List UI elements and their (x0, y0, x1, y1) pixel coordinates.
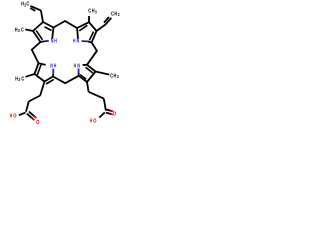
SW pyrrole ring (35, 63, 54, 84)
bond C(beta top)-C(beta left) (33, 22, 43, 31)
double bond C(beta bottom)=C(alpha BR) (45, 77, 54, 82)
top meso bridge CH (54, 21, 78, 28)
SW carboxyl C-OH bond (19, 113, 26, 116)
vinyl NW double bond CH=CH2 (30, 6, 41, 10)
bond N4 stub (blue) (52, 69, 54, 74)
bond N1 stub (blue) (45, 40, 49, 42)
bond C(alpha BR)-N2 (88, 41, 92, 42)
SE propionic acid chain: ring-CH2 (87, 82, 89, 92)
bond N1-C(alpha top) (52, 28, 53, 39)
svg-text:N: N (51, 39, 54, 45)
SW chain CH2-CH2 (29, 96, 41, 102)
bond N2-C(alpha top-left) (76, 28, 79, 38)
NW pyrrole ring (33, 22, 54, 42)
SE carboxyl C-OH bond (99, 112, 105, 117)
svg-text:H: H (54, 63, 57, 69)
methyl bond NE CH3 (88, 16, 90, 22)
svg-text:C: C (21, 27, 24, 33)
double bond C(alpha L)=C(beta left) (35, 63, 39, 74)
double bond C(alpha top)=C(beta top) (43, 22, 54, 28)
svg-text:3: 3 (18, 77, 20, 82)
svg-text:3: 3 (18, 28, 20, 33)
SW chain CH2-COOH (26, 102, 29, 112)
bond N3-C(alpha right) (83, 64, 87, 66)
SE chain CH2-COOH (104, 99, 106, 111)
bond C(beta top)-C(beta right) (89, 22, 97, 31)
svg-text:N: N (77, 63, 80, 69)
east meso bridge CH (87, 43, 97, 65)
SW carboxyl C=O double bond (27, 114, 34, 120)
SW C=O red half (31, 118, 34, 121)
svg-text:H: H (73, 39, 76, 45)
bond C(beta right)-C(beta bottom) (87, 72, 96, 83)
svg-text:O: O (93, 119, 97, 125)
NE pyrrole ring (77, 22, 97, 42)
svg-text:H: H (90, 119, 93, 125)
red halves of C=O double bonds (31, 111, 113, 121)
svg-text:O: O (36, 120, 40, 126)
bond C(beta left)-C(beta bottom) (35, 74, 45, 82)
double bond C(alpha TL)=C(beta top) (77, 22, 89, 28)
SE chain CH2-CH2 (89, 92, 104, 99)
svg-text:C: C (21, 76, 24, 82)
atom labels (10, 2, 120, 127)
svg-text:H: H (54, 39, 57, 45)
SE C=O red half (110, 110, 113, 113)
bond C(alpha bottom)-N1 (41, 40, 45, 43)
bond C(alpha BR)-N4 (52, 74, 54, 77)
south meso bridge CH (53, 76, 79, 83)
svg-text:H: H (10, 113, 13, 119)
methyl bond SE CH3 (96, 72, 110, 75)
bond C(alpha BL)-N3 (78, 73, 80, 76)
svg-text:2: 2 (118, 12, 120, 17)
SW propionic acid chain: ring-CH2 (40, 82, 44, 96)
methyl bond SW H3C- (26, 74, 35, 77)
svg-text:O: O (113, 112, 117, 118)
double bond C(alpha R)=C(beta right) (87, 65, 96, 72)
svg-text:N: N (77, 39, 80, 45)
bond N3 stub (blue) (78, 69, 80, 73)
svg-text:C: C (26, 2, 29, 8)
bond N4-C(alpha left) (39, 63, 46, 65)
methyl bond NW H3C- (25, 29, 33, 31)
SE pyrrole ring (79, 65, 96, 82)
vinyl on NW ring: bond ring-CH (41, 10, 43, 22)
SE carboxyl C=O double bond (107, 110, 113, 112)
double bond C(beta right)=C(alpha BR) (92, 31, 97, 43)
svg-text:3: 3 (95, 9, 97, 14)
double bond C(beta left)=C(alpha bottom) (33, 31, 41, 42)
svg-text:O: O (13, 113, 17, 119)
svg-text:N: N (50, 63, 53, 69)
vinyl on NE ring: bond ring-CH (97, 25, 106, 32)
vinyl NE double bond CH=CH2 (106, 18, 112, 25)
svg-text:3: 3 (117, 74, 119, 79)
svg-text:H: H (74, 63, 77, 69)
bond N2 stub (blue) (82, 40, 89, 42)
double bond C(beta bottom)=C(alpha BL) (79, 76, 87, 82)
west meso bridge CH (32, 42, 41, 63)
